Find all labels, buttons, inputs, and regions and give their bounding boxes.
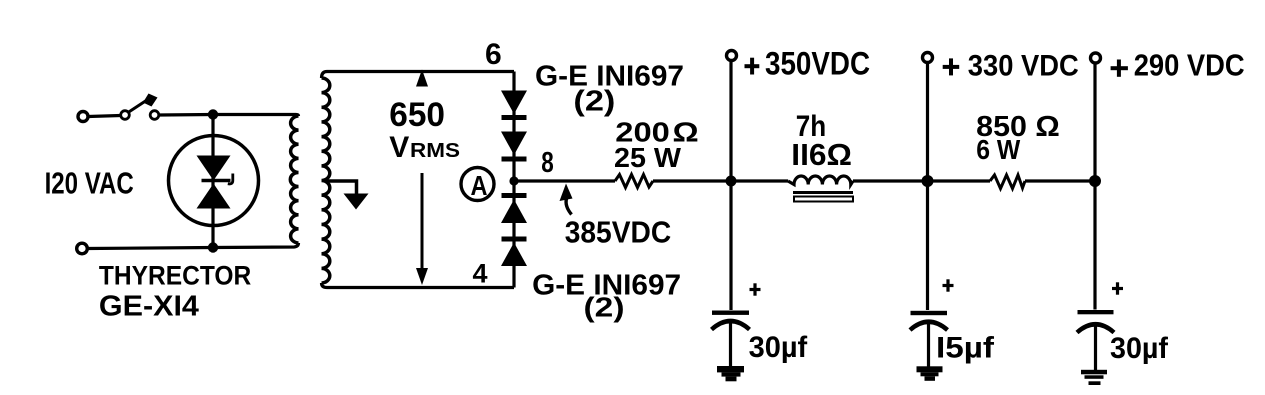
- inductor L1 core line: [793, 191, 853, 194]
- wire thyrector vertical: [211, 115, 214, 248]
- svg-text:30µf: 30µf: [1110, 332, 1169, 365]
- wire terminal to switch pivot: [89, 116, 121, 117]
- capacitor C1 top plate: [712, 311, 749, 315]
- thyrector CR1 lower diode triangle: [197, 184, 231, 209]
- switch S1 right contact: [150, 111, 159, 120]
- resistor R1 200ohm zigzag: [615, 175, 653, 188]
- wire bottom-left rail: [88, 248, 214, 249]
- node junction bottom-left: [208, 242, 218, 252]
- voltage arrow 650 Vrms line: [421, 173, 424, 271]
- inductor L1 core rect: [794, 197, 853, 202]
- node 8 junction dot: [509, 176, 518, 185]
- svg-text:330 VDC: 330 VDC: [968, 49, 1079, 82]
- terminal +350 circle: [727, 51, 737, 61]
- wire bus R2 to +290 node: [1025, 179, 1095, 182]
- diode D1 triangle: [501, 91, 527, 115]
- thyrector CR1 junction bar: [202, 179, 231, 182]
- wire contact to node: [159, 113, 213, 117]
- diode D2 triangle: [501, 132, 527, 156]
- switch S1 blade: [128, 100, 147, 113]
- svg-text:350VDC: 350VDC: [765, 46, 870, 82]
- svg-text:(2): (2): [584, 292, 625, 323]
- wire bus R1 to L1: [653, 179, 788, 182]
- svg-text:8: 8: [541, 147, 554, 179]
- wire bus node8 to R1: [514, 179, 615, 182]
- svg-text:GE-XI4: GE-XI4: [99, 291, 199, 323]
- 385VDC arrow tail: [566, 199, 571, 215]
- wire C2 to ground: [927, 323, 930, 367]
- resistor R2 850ohm zigzag: [990, 175, 1025, 189]
- capacitor C3 top plate: [1078, 310, 1114, 314]
- wire rectifier string vertical: [512, 72, 515, 288]
- transformer T1 primary winding: [290, 116, 298, 243]
- svg-text:II6Ω: II6Ω: [791, 137, 852, 172]
- capacitor C3 curved plate: [1077, 324, 1114, 332]
- terminal +330 circle: [923, 53, 933, 63]
- wire C1 to ground: [729, 323, 732, 367]
- transformer T1 secondary winding: [322, 78, 330, 283]
- thyrector CR1 upper diode triangle: [197, 156, 231, 181]
- diode D3 cathode bar: [502, 193, 527, 198]
- wire node to transformer primary bottom: [213, 243, 299, 248]
- node junction +350: [726, 176, 737, 187]
- capacitor C2 top plate: [911, 311, 948, 315]
- label +350VDC plus sign: [745, 64, 760, 68]
- wire C3 to ground: [1094, 324, 1097, 370]
- wire down to capacitor C3: [1093, 181, 1096, 310]
- wire up to +290 terminal: [1093, 64, 1096, 182]
- wire up to +350 terminal: [729, 61, 732, 181]
- inductor L1 coil: [788, 176, 853, 185]
- wire secondary top to terminal 6: [322, 72, 515, 79]
- diode D1 cathode bar: [502, 115, 527, 120]
- wire bus L1 to R2: [853, 179, 990, 182]
- ground G1: [717, 366, 744, 372]
- ground G2: [917, 366, 943, 372]
- node junction +290: [1089, 175, 1101, 187]
- diode D4 cathode bar: [502, 237, 527, 242]
- label +290 plus sign: [1111, 66, 1128, 70]
- svg-text:30µf: 30µf: [749, 331, 809, 364]
- svg-text:650: 650: [389, 96, 445, 134]
- node junction +330: [922, 175, 934, 187]
- voltage arrow top head: [416, 70, 428, 87]
- wire secondary bottom to terminal 4: [322, 283, 515, 288]
- capacitor C2 curved plate: [910, 322, 948, 330]
- node A circle: [461, 168, 494, 201]
- svg-text:385VDC: 385VDC: [565, 214, 672, 249]
- wire node to transformer primary top: [213, 115, 299, 117]
- svg-text:V: V: [389, 131, 409, 164]
- diode D3 triangle: [501, 200, 527, 224]
- capacitor C3 plus sign: [1112, 287, 1123, 290]
- diode D4 triangle: [501, 243, 527, 267]
- svg-text:290 VDC: 290 VDC: [1134, 47, 1245, 82]
- svg-text:I5µf: I5µf: [936, 332, 995, 365]
- voltage arrow bottom head: [416, 268, 428, 285]
- thyrector CR1 J mark: [228, 174, 233, 184]
- 385VDC arrow head: [560, 184, 573, 202]
- capacitor C1 curved plate: [712, 321, 750, 330]
- switch S1 pivot contact: [121, 111, 130, 120]
- svg-text:25 W: 25 W: [614, 142, 682, 173]
- terminal top-left input: [78, 112, 88, 122]
- node junction top-left: [208, 109, 218, 119]
- transformer center tap wire: [326, 181, 357, 194]
- ground G3 earth bars: [1081, 370, 1107, 375]
- svg-text:A: A: [471, 170, 488, 201]
- transformer center tap ground arrow: [344, 194, 369, 210]
- svg-text:(2): (2): [573, 86, 615, 118]
- svg-text:I20 VAC: I20 VAC: [45, 165, 134, 200]
- svg-text:4: 4: [473, 259, 488, 289]
- capacitor C1 plus sign: [750, 288, 761, 291]
- diode D2 cathode bar: [502, 157, 527, 162]
- svg-text:RMS: RMS: [410, 139, 460, 162]
- wire down to capacitor C1: [729, 181, 732, 310]
- svg-text:6: 6: [485, 38, 502, 71]
- wire up to +330 terminal: [926, 63, 929, 181]
- terminal bottom-left input: [77, 243, 88, 254]
- svg-text:THYRECTOR: THYRECTOR: [99, 260, 251, 290]
- thyrector CR1 circle: [169, 136, 259, 226]
- label +330 plus sign: [943, 65, 960, 69]
- wire down to capacitor C2: [926, 181, 929, 310]
- terminal +290 circle: [1091, 53, 1101, 63]
- switch S1 blade tip blob: [143, 94, 158, 107]
- capacitor C2 plus sign: [943, 284, 954, 287]
- svg-text:6 W: 6 W: [976, 134, 1021, 165]
